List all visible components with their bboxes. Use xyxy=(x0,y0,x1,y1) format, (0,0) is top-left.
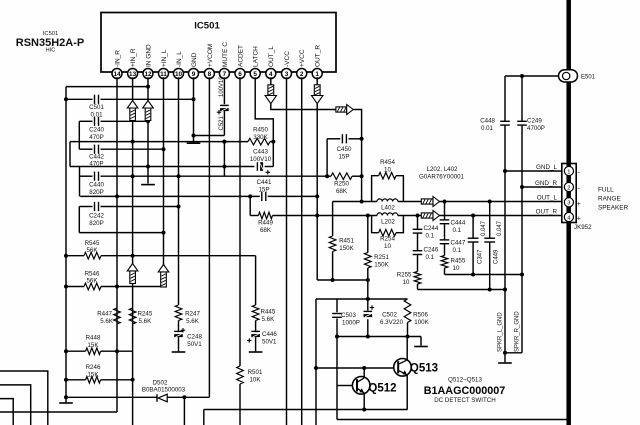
ground pin9 xyxy=(187,142,201,144)
wire nested corner B xyxy=(0,385,31,425)
svg-text:C503: C503 xyxy=(341,312,356,319)
junction C503 at rail xyxy=(335,335,339,339)
label C347 value (rotated) xyxy=(481,220,487,236)
svg-text:6: 6 xyxy=(238,71,242,78)
svg-text:11: 11 xyxy=(160,71,167,78)
pin 1 circle xyxy=(312,69,322,79)
wire pin6 line xyxy=(239,77,241,425)
svg-text:1: 1 xyxy=(315,71,319,78)
pin 4 circle xyxy=(266,69,276,79)
junction OUT_L at C449 xyxy=(488,200,492,204)
resistor R454 xyxy=(379,172,396,179)
svg-text:C242: C242 xyxy=(89,213,104,220)
diode D502 xyxy=(157,394,167,402)
capacitor C244 xyxy=(413,229,423,233)
junction pin9/C521 xyxy=(192,134,196,138)
connector JK952 pin 3 xyxy=(564,198,573,207)
svg-text:C246: C246 xyxy=(424,247,439,254)
svg-text:GND_R: GND_R xyxy=(535,180,557,187)
label R451 xyxy=(339,238,354,253)
svg-text:HIC: HIC xyxy=(46,48,56,54)
svg-text:5.6K: 5.6K xyxy=(186,318,200,325)
svg-text:R449: R449 xyxy=(258,220,273,227)
wire C450 row xyxy=(327,138,362,140)
capacitor C443 xyxy=(257,162,263,171)
pin 4 label OUT_L xyxy=(268,46,275,67)
svg-text:IC501: IC501 xyxy=(194,21,220,32)
svg-text:13: 13 xyxy=(129,71,137,78)
pin 14 label -IN_R xyxy=(114,50,121,67)
svg-text:R448: R448 xyxy=(86,335,101,342)
pin 6 label ACDET xyxy=(237,45,244,67)
capacitor C444 xyxy=(440,220,450,224)
svg-text:MUTE C: MUTE C xyxy=(222,42,229,67)
svg-text:68K: 68K xyxy=(336,188,348,195)
pin 12 label IN GND xyxy=(145,44,152,67)
label Q512-Q513 xyxy=(448,377,482,384)
svg-text:R455: R455 xyxy=(451,258,466,265)
capacitor C449 xyxy=(484,238,495,242)
svg-text:56K: 56K xyxy=(86,278,98,285)
wire C443 right leg up xyxy=(272,142,274,167)
part label HIC xyxy=(46,48,56,54)
svg-text:Q512~Q513: Q512~Q513 xyxy=(448,377,482,384)
wire C450 loop left xyxy=(326,139,328,176)
svg-text:+: + xyxy=(577,216,581,223)
label R447 xyxy=(97,311,114,326)
svg-text:9: 9 xyxy=(192,71,196,78)
junction rail bottom xyxy=(64,395,68,399)
capacitor C448 xyxy=(500,121,510,125)
ground left rail xyxy=(59,397,73,403)
junction R506 at rail xyxy=(406,335,410,339)
wire R254 loop xyxy=(372,216,404,233)
plus C443 xyxy=(266,170,270,174)
junction x361.6 at C450 row xyxy=(360,137,364,141)
junction C449 at row289.5 xyxy=(488,288,492,292)
junction x505 at row289.5 xyxy=(503,288,507,292)
connector JK952 box xyxy=(562,164,576,223)
junction row166 at pin7 xyxy=(222,165,226,169)
label D502 xyxy=(142,380,186,394)
wire row y=149.2 (C442 row) xyxy=(79,148,163,150)
label C447 xyxy=(451,240,466,255)
svg-text:R445: R445 xyxy=(261,309,276,316)
wire C449 line x=489.7 xyxy=(489,202,491,290)
junction R546 row at pin14 xyxy=(115,285,119,289)
pin 10 label -IN_L xyxy=(176,51,183,67)
svg-text:R451: R451 xyxy=(339,238,354,245)
capacitor C446 xyxy=(251,331,260,337)
svg-text:4700P: 4700P xyxy=(527,125,545,132)
label R450 xyxy=(253,127,268,142)
wire Q513 emitter xyxy=(406,375,408,410)
connector JK952 pin 2 xyxy=(564,182,573,191)
svg-text:+IN_L: +IN_L xyxy=(161,49,168,67)
resistor R501 xyxy=(237,366,244,384)
polarity marks xyxy=(577,170,581,223)
wire C444 chain x=444.5 xyxy=(444,202,446,275)
svg-text:E501: E501 xyxy=(581,75,596,81)
label L402 xyxy=(381,205,395,212)
svg-text:150K: 150K xyxy=(339,245,354,252)
wire row y=141.6 (R450 net) xyxy=(70,141,273,143)
arrow right OUT_L top xyxy=(336,105,353,115)
capacitor C502 xyxy=(364,311,373,317)
bus thick line x=568.7 xyxy=(566,0,571,425)
resistor R450 xyxy=(248,138,270,145)
label R250 xyxy=(334,181,349,196)
connector E501 xyxy=(559,70,578,82)
capacitor C441 xyxy=(262,192,266,201)
wire row y=86.6 (rail to pin12) xyxy=(66,86,148,88)
svg-text:OUT_L: OUT_L xyxy=(537,194,558,201)
pin 7 circle xyxy=(219,69,229,79)
wire bracket x=79.3 (C242 box) xyxy=(78,207,80,233)
wire row y=99.3 (C501 row) xyxy=(66,98,194,100)
junction rail/R448 xyxy=(64,349,68,353)
svg-text:5.6K: 5.6K xyxy=(139,318,153,325)
junction C502 at rail336 xyxy=(366,335,370,339)
wire row y=255.7 (R545 row) xyxy=(66,255,256,257)
svg-text:470P: 470P xyxy=(89,134,103,141)
svg-text:6.3V220: 6.3V220 xyxy=(380,319,404,326)
capacitor C450 xyxy=(342,134,346,143)
capacitor C246 xyxy=(413,251,423,255)
label C444 xyxy=(451,220,466,235)
svg-text:R447: R447 xyxy=(97,311,112,318)
svg-text:JK952: JK952 xyxy=(574,224,592,231)
resistor R254 xyxy=(379,229,396,236)
svg-text:C248: C248 xyxy=(187,334,202,341)
svg-text:B0BA01500003: B0BA01500003 xyxy=(142,387,186,394)
wire bracket x=79.3 (C240-C442) xyxy=(78,121,80,149)
junction row76 at C249 xyxy=(520,74,524,78)
wire left rail x=66 xyxy=(65,87,67,398)
svg-text:R545: R545 xyxy=(85,240,100,247)
svg-text:C443: C443 xyxy=(253,149,268,156)
svg-text:SPKR_R_GND: SPKR_R_GND xyxy=(515,311,521,352)
svg-text:GND: GND xyxy=(191,52,198,67)
wire pin14 to row412 corner xyxy=(0,411,117,413)
junction R448 row at pin14 xyxy=(115,349,119,353)
capacitor C501 xyxy=(95,95,99,104)
inductor L402 xyxy=(377,199,398,202)
label C449 (rotated) xyxy=(494,249,500,264)
wire pin8 line xyxy=(208,77,210,397)
label GND_R xyxy=(535,180,557,187)
junction Q512 emitter at row409 xyxy=(362,408,366,412)
svg-text:C240: C240 xyxy=(89,127,104,134)
svg-text:R546: R546 xyxy=(85,271,100,278)
wire pin2 line xyxy=(301,77,303,425)
wire Q512 base row xyxy=(337,385,352,387)
label R501 xyxy=(248,369,263,384)
wire OUT_R row y=215.5 xyxy=(250,215,562,217)
label DC DETECT SWITCH xyxy=(434,397,495,404)
label R255 xyxy=(397,272,412,287)
wire R251 line x=367.8 xyxy=(367,216,369,337)
junction C347 at row274.5 xyxy=(471,273,475,277)
label R546 xyxy=(85,271,100,285)
ground rail336 xyxy=(414,337,428,347)
svg-text:R506: R506 xyxy=(413,312,428,319)
wire rail y=336.5 xyxy=(337,336,421,338)
svg-text:8: 8 xyxy=(208,71,212,78)
label C443 xyxy=(250,149,272,164)
label R445 xyxy=(261,309,276,324)
pin 5 circle xyxy=(250,69,260,79)
svg-text:C447: C447 xyxy=(451,240,466,247)
inductor L202 xyxy=(377,213,398,216)
label C347 (rotated) xyxy=(477,249,483,264)
junction row232 at pin11 xyxy=(162,231,166,235)
svg-text:R501: R501 xyxy=(248,369,263,376)
label B1AAGC000007 xyxy=(424,385,506,397)
wire Q512 emitter xyxy=(363,393,365,410)
label C246 xyxy=(424,247,439,262)
svg-text:C444: C444 xyxy=(451,220,466,227)
wire pin4 below arrow xyxy=(271,104,336,110)
wire R445 to C446 xyxy=(255,321,257,332)
pin 13 circle xyxy=(128,69,138,79)
wire x522 to x505 join xyxy=(505,352,522,354)
svg-text:1: 1 xyxy=(567,169,570,175)
capacitor C447 xyxy=(440,240,450,244)
svg-text:1000P: 1000P xyxy=(342,320,360,327)
wire pin11 line xyxy=(163,77,165,287)
svg-text:5.6K: 5.6K xyxy=(262,316,276,323)
wire pin5 jog xyxy=(255,77,273,141)
wire OUT_L row y=201.5 xyxy=(333,201,562,203)
junction row176 at x=361.6 xyxy=(360,174,364,178)
resistor R546 xyxy=(84,283,101,290)
wire row y=409.5 xyxy=(204,409,408,411)
label C442 xyxy=(89,154,104,168)
wire pin3 line xyxy=(286,77,288,425)
wire C347 line x=473.1 xyxy=(472,216,474,275)
label L202 L402 part no xyxy=(419,166,465,181)
label C521 (rotated) xyxy=(219,115,225,130)
svg-text:12: 12 xyxy=(144,71,152,78)
pin 2 circle xyxy=(297,69,307,79)
svg-text:-IN_L: -IN_L xyxy=(176,51,183,67)
junction R450 right node xyxy=(271,140,275,144)
svg-text:0.1: 0.1 xyxy=(453,227,462,234)
label C448 xyxy=(480,118,495,133)
label C249 xyxy=(527,118,545,133)
junction C501 row at pin9 xyxy=(192,97,196,101)
pin 12 circle xyxy=(143,69,153,79)
svg-text:R245: R245 xyxy=(138,311,153,318)
svg-text:0.01: 0.01 xyxy=(90,112,103,119)
junction rail/C501 row xyxy=(64,97,68,101)
capacitor C240 xyxy=(95,117,99,126)
label C242 xyxy=(89,213,104,228)
capacitor C440 xyxy=(95,172,99,181)
label C521 value (rotated) xyxy=(219,76,225,97)
pin 11 circle xyxy=(159,69,169,79)
svg-text:R246: R246 xyxy=(86,364,101,371)
ground pin10 xyxy=(172,351,186,353)
pin 10 circle xyxy=(174,69,184,79)
svg-text:-IN_R: -IN_R xyxy=(114,50,121,67)
wire pin4 stub xyxy=(270,77,272,85)
wire nested corner A xyxy=(0,371,48,425)
svg-text:SPEAKER: SPEAKER xyxy=(598,205,629,212)
IC U1 IC501 outline xyxy=(101,13,336,73)
wire row y=206.5 (C242 row) xyxy=(79,206,178,208)
junction row196 at x=250.2 xyxy=(248,194,252,198)
pin 5 label LATCH xyxy=(253,46,260,67)
junction rail/R246 xyxy=(64,378,68,382)
svg-text:C244: C244 xyxy=(424,225,439,232)
label R246 xyxy=(86,364,101,379)
pin 2 label +VCC xyxy=(299,49,306,67)
junction OUT_R at C347 xyxy=(471,214,475,218)
label R245 xyxy=(138,311,153,326)
label R247 xyxy=(185,311,200,326)
junction row176 at C450 leg xyxy=(325,174,329,178)
pin 8 label +VCOM xyxy=(207,44,214,67)
pin 13 label +IN_R xyxy=(130,48,137,67)
wire C244 chain x=417.5 xyxy=(417,216,419,290)
svg-text:+VCOM: +VCOM xyxy=(207,44,214,67)
wire row y=76 to E501 xyxy=(505,75,561,77)
wire row y=419.5 xyxy=(337,419,567,421)
wire Q513 collector xyxy=(406,337,408,360)
svg-text:R254: R254 xyxy=(380,236,395,243)
wire R451 to row280 xyxy=(332,252,334,281)
svg-text:C450: C450 xyxy=(337,146,352,153)
resistor R545 xyxy=(84,252,101,259)
svg-text:14: 14 xyxy=(113,71,121,78)
svg-text:10: 10 xyxy=(384,243,391,250)
arrow in pin11 lower xyxy=(158,265,169,288)
svg-text:5: 5 xyxy=(253,71,257,78)
label R448 xyxy=(86,335,101,350)
label R506 xyxy=(413,312,429,327)
pin 9 circle xyxy=(189,69,199,79)
junction Q512 collector at Q513 base xyxy=(362,366,366,370)
svg-text:3: 3 xyxy=(567,201,570,207)
wire C503 branch xyxy=(336,299,338,337)
junction C242 row at pin10 xyxy=(177,205,181,209)
svg-text:150K: 150K xyxy=(374,262,389,269)
wire x=203.8 drop xyxy=(203,410,205,425)
junction x505/x522 join xyxy=(503,351,507,355)
arrow in pin13 lower xyxy=(127,264,138,284)
svg-text:+: + xyxy=(577,201,581,208)
connector JK952 pin 1 xyxy=(564,166,573,175)
arrow out pin4 xyxy=(265,85,276,104)
svg-text:10: 10 xyxy=(403,279,410,286)
label GND_L xyxy=(536,164,557,171)
plus C446 xyxy=(247,338,251,342)
svg-text:C501: C501 xyxy=(89,104,104,111)
resistor R246 xyxy=(86,377,101,384)
resistor R455 xyxy=(441,256,448,269)
junction C442 row at pin11 xyxy=(162,147,166,151)
junction row196 at pin1 xyxy=(315,194,319,198)
label C240 xyxy=(89,127,104,142)
resistor R506 xyxy=(404,299,411,323)
label FULL RANGE SPEAKER xyxy=(598,187,629,212)
wire R506 to rail xyxy=(407,323,409,337)
svg-text:56K: 56K xyxy=(86,247,98,254)
pin 9 label GND xyxy=(191,52,198,67)
label R251 xyxy=(374,254,389,269)
ground pin12 xyxy=(141,184,155,186)
svg-text:GND_L: GND_L xyxy=(536,164,557,171)
arrow in pin13 top xyxy=(127,101,138,121)
svg-text:OUT_R: OUT_R xyxy=(536,208,558,215)
wire row y=121.3 (C240 row) xyxy=(79,120,148,122)
svg-text:RANGE: RANGE xyxy=(598,196,621,203)
junction R251 at row280 xyxy=(366,278,370,282)
junction rail/row86 pin12 xyxy=(146,85,150,89)
plus C248 xyxy=(181,328,185,332)
svg-text:0.1: 0.1 xyxy=(426,254,435,261)
wire row y=299 (C503 rail) xyxy=(316,298,408,300)
wire x=316 drop xyxy=(315,299,317,425)
transistor Q513 xyxy=(394,359,412,377)
pin 6 circle xyxy=(235,69,245,79)
pin 14 circle xyxy=(112,69,122,79)
label C501 xyxy=(89,104,104,119)
pin 3 label -VCC xyxy=(284,51,291,67)
svg-text:-VCC: -VCC xyxy=(284,51,291,67)
svg-text:FULL: FULL xyxy=(598,187,614,194)
junction OUT_R at R251 xyxy=(366,214,370,218)
svg-text:0.047: 0.047 xyxy=(481,220,487,236)
svg-text:15P: 15P xyxy=(258,186,269,193)
junction R251 at row299 xyxy=(366,297,370,301)
svg-text:G0AR76Y00001: G0AR76Y00001 xyxy=(419,174,465,181)
svg-text:0.1: 0.1 xyxy=(426,233,435,240)
ground C446 xyxy=(249,351,263,353)
label E501 xyxy=(581,75,596,81)
svg-text:C502: C502 xyxy=(382,312,397,319)
svg-text:ACDET: ACDET xyxy=(237,45,244,67)
svg-text:R255: R255 xyxy=(397,272,412,279)
svg-text:15P: 15P xyxy=(338,153,349,160)
junction OUT_R at C244 chain xyxy=(416,214,420,218)
svg-text:C449: C449 xyxy=(494,249,500,264)
wire row y=379.8 (R246 row) xyxy=(66,379,133,381)
plus C502 xyxy=(370,305,374,309)
wire bracket x=79.5 (row166-row196) xyxy=(79,167,81,197)
svg-text:C521: C521 xyxy=(219,115,225,130)
wire bracket x=70 (row141-row166) xyxy=(69,142,71,167)
plus C521 xyxy=(217,110,221,114)
junction rail/R546 xyxy=(64,285,68,289)
junction row176 at pin10 xyxy=(177,174,181,178)
junction OUT_L at C444 chain xyxy=(443,200,447,204)
svg-text:Q513: Q513 xyxy=(410,363,438,375)
wire row y=232.6 xyxy=(79,232,163,234)
capacitor C503 xyxy=(332,314,342,318)
resistor R445 xyxy=(252,305,259,321)
label Q512 xyxy=(368,383,396,395)
svg-text:50V1: 50V1 xyxy=(187,341,202,348)
svg-text:R450: R450 xyxy=(253,127,268,134)
junction C240 row at pin12 arrow xyxy=(146,119,150,123)
svg-text:D502: D502 xyxy=(153,380,168,387)
svg-text:15K: 15K xyxy=(87,342,99,349)
part label RSN35H2A-P xyxy=(16,37,84,49)
transistor Q512 xyxy=(352,377,370,395)
